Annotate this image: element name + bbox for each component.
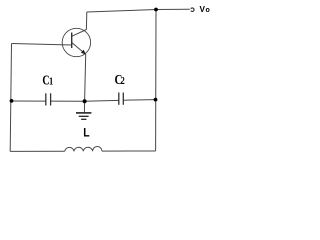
svg-text:1: 1 xyxy=(49,77,54,88)
svg-text:2: 2 xyxy=(121,75,125,86)
svg-text:L: L xyxy=(83,127,89,140)
svg-text:o: o xyxy=(206,7,210,14)
